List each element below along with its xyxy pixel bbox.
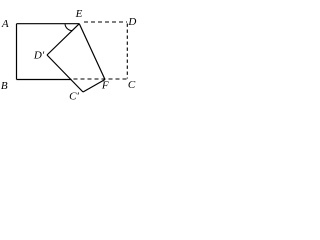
folded edge C'F: [83, 80, 105, 93]
svg-text:C: C: [128, 79, 136, 91]
side AE (top edge, solid): [17, 23, 80, 25]
fold line EF: [79, 24, 105, 80]
svg-text:E: E: [75, 8, 83, 20]
svg-text:C′: C′: [69, 91, 79, 103]
dashed FC bottom (hidden bottom edge): [74, 78, 127, 80]
svg-text:A: A: [1, 18, 9, 30]
side AB (left edge): [16, 24, 18, 80]
dashed ED (original top edge): [84, 21, 127, 23]
crease ED': [47, 24, 79, 55]
svg-text:B: B: [1, 80, 8, 92]
svg-text:F: F: [101, 79, 109, 91]
svg-text:D: D: [127, 16, 136, 28]
dashed DC (original right edge): [126, 24, 128, 79]
side B to crossing (bottom edge, solid part): [17, 79, 72, 81]
svg-text:D′: D′: [33, 50, 45, 62]
angle arc at E: [65, 24, 72, 31]
folded edge D'C': [47, 55, 83, 92]
